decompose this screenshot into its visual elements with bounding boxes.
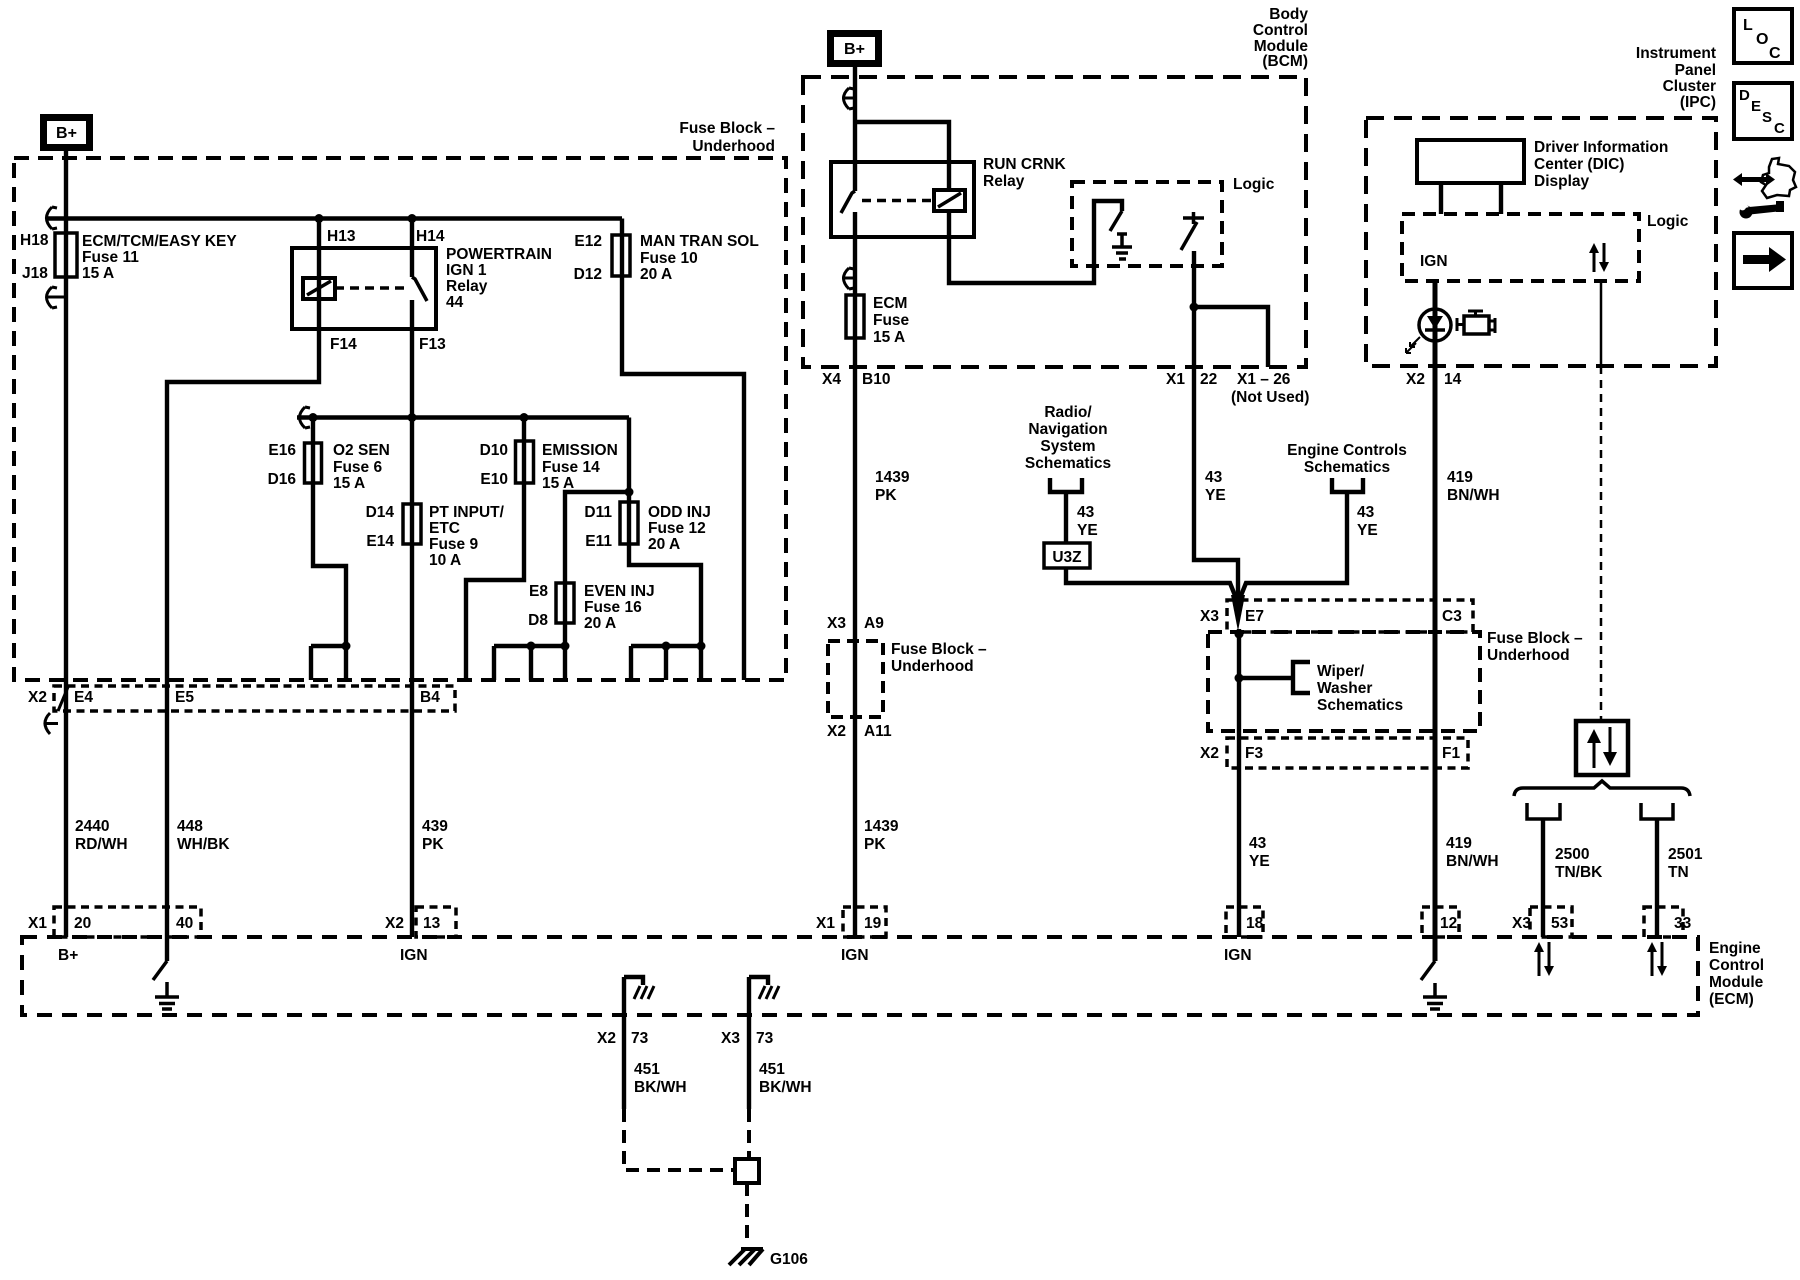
svg-text:BK/WH: BK/WH [634, 1079, 687, 1096]
svg-text:Engine: Engine [1709, 940, 1761, 957]
svg-text:E5: E5 [175, 689, 194, 706]
svg-text:MAN TRAN SOL: MAN TRAN SOL [640, 233, 759, 250]
svg-text:20 A: 20 A [640, 266, 672, 283]
svg-text:419: 419 [1447, 469, 1473, 486]
svg-text:YE: YE [1077, 522, 1098, 539]
svg-text:ETC: ETC [429, 520, 460, 537]
svg-text:448: 448 [177, 818, 203, 835]
svg-text:E8: E8 [529, 583, 548, 600]
svg-text:Body: Body [1269, 6, 1308, 23]
svg-text:20 A: 20 A [584, 615, 616, 632]
svg-text:Fuse 14: Fuse 14 [542, 459, 600, 476]
svg-text:43: 43 [1249, 835, 1267, 852]
svg-text:Fuse 9: Fuse 9 [429, 536, 478, 553]
svg-text:YE: YE [1249, 853, 1270, 870]
svg-text:J18: J18 [22, 265, 48, 282]
svg-text:X3: X3 [721, 1030, 740, 1047]
svg-text:12: 12 [1440, 915, 1457, 932]
svg-text:EMISSION: EMISSION [542, 442, 618, 459]
svg-text:C: C [1774, 120, 1785, 137]
svg-text:D10: D10 [480, 442, 508, 459]
svg-text:19: 19 [864, 915, 882, 932]
svg-text:X2: X2 [1406, 371, 1425, 388]
svg-text:PT INPUT/: PT INPUT/ [429, 504, 505, 521]
svg-text:451: 451 [634, 1061, 660, 1078]
svg-text:EVEN INJ: EVEN INJ [584, 583, 655, 600]
svg-text:15 A: 15 A [542, 475, 574, 492]
svg-text:X3: X3 [827, 615, 846, 632]
svg-text:X4: X4 [822, 371, 841, 388]
svg-text:ODD INJ: ODD INJ [648, 504, 711, 521]
svg-text:F14: F14 [330, 336, 357, 353]
svg-text:40: 40 [176, 915, 193, 932]
svg-text:C3: C3 [1442, 608, 1462, 625]
svg-text:C: C [1769, 45, 1781, 62]
svg-text:43: 43 [1205, 469, 1223, 486]
svg-text:B4: B4 [420, 689, 440, 706]
svg-text:E12: E12 [574, 233, 602, 250]
svg-text:Logic: Logic [1233, 176, 1275, 193]
svg-text:PK: PK [864, 836, 886, 853]
svg-text:L: L [1743, 17, 1753, 34]
svg-text:Fuse: Fuse [873, 312, 910, 329]
svg-text:E16: E16 [268, 442, 296, 459]
svg-text:43: 43 [1077, 504, 1095, 521]
svg-text:Fuse 16: Fuse 16 [584, 599, 642, 616]
svg-text:1439: 1439 [864, 818, 899, 835]
svg-text:22: 22 [1200, 371, 1217, 388]
svg-text:BN/WH: BN/WH [1447, 487, 1500, 504]
svg-text:POWERTRAIN: POWERTRAIN [446, 246, 552, 263]
svg-text:B+: B+ [56, 125, 77, 142]
svg-text:33: 33 [1674, 915, 1692, 932]
svg-text:(ECM): (ECM) [1709, 991, 1754, 1008]
svg-text:O: O [1756, 31, 1768, 48]
svg-text:18: 18 [1246, 915, 1264, 932]
svg-text:2501: 2501 [1668, 846, 1703, 863]
svg-text:X1 – 26: X1 – 26 [1237, 371, 1291, 388]
svg-text:A11: A11 [864, 723, 892, 740]
svg-text:E: E [1751, 98, 1761, 115]
svg-text:X2: X2 [1200, 745, 1219, 762]
svg-text:F1: F1 [1442, 745, 1460, 762]
svg-text:X1: X1 [816, 915, 835, 932]
svg-text:IGN: IGN [400, 947, 428, 964]
svg-text:15 A: 15 A [873, 329, 905, 346]
svg-text:Underhood: Underhood [891, 658, 974, 675]
svg-text:U3Z: U3Z [1052, 549, 1082, 566]
svg-text:Navigation: Navigation [1028, 421, 1107, 438]
svg-text:(BCM): (BCM) [1262, 53, 1308, 70]
svg-text:2440: 2440 [75, 818, 109, 835]
svg-text:Driver Information: Driver Information [1534, 139, 1668, 156]
svg-text:14: 14 [1444, 371, 1462, 388]
svg-text:YE: YE [1357, 522, 1378, 539]
svg-text:S: S [1762, 109, 1772, 126]
svg-text:Relay: Relay [446, 278, 488, 295]
svg-text:419: 419 [1446, 835, 1472, 852]
svg-text:H13: H13 [327, 228, 356, 245]
svg-text:IGN: IGN [1224, 947, 1252, 964]
svg-text:D12: D12 [574, 266, 602, 283]
svg-text:13: 13 [423, 915, 441, 932]
svg-text:RUN CRNK: RUN CRNK [983, 156, 1066, 173]
svg-text:Control: Control [1253, 22, 1308, 39]
svg-text:Fuse 10: Fuse 10 [640, 250, 698, 267]
svg-text:Fuse Block –: Fuse Block – [891, 641, 987, 658]
svg-text:E7: E7 [1245, 608, 1264, 625]
svg-text:Display: Display [1534, 173, 1590, 190]
svg-text:ECM/TCM/EASY KEY: ECM/TCM/EASY KEY [82, 233, 237, 250]
svg-text:D16: D16 [268, 471, 297, 488]
svg-text:B10: B10 [862, 371, 890, 388]
svg-text:Underhood: Underhood [1487, 647, 1570, 664]
svg-text:BK/WH: BK/WH [759, 1079, 812, 1096]
svg-text:43: 43 [1357, 504, 1375, 521]
svg-text:TN/BK: TN/BK [1555, 864, 1603, 881]
svg-text:73: 73 [756, 1030, 774, 1047]
svg-text:Wiper/: Wiper/ [1317, 663, 1365, 680]
svg-text:Relay: Relay [983, 173, 1025, 190]
svg-text:10 A: 10 A [429, 552, 461, 569]
svg-text:A9: A9 [864, 615, 884, 632]
svg-text:15 A: 15 A [82, 265, 114, 282]
svg-text:(IPC): (IPC) [1680, 94, 1716, 111]
svg-text:439: 439 [422, 818, 448, 835]
svg-text:E10: E10 [480, 471, 508, 488]
svg-text:Fuse 12: Fuse 12 [648, 520, 706, 537]
svg-text:Center (DIC): Center (DIC) [1534, 156, 1624, 173]
svg-text:IGN: IGN [841, 947, 869, 964]
svg-text:X2: X2 [28, 689, 47, 706]
svg-text:1439: 1439 [875, 469, 910, 486]
svg-text:F13: F13 [419, 336, 446, 353]
svg-text:X3: X3 [1512, 915, 1531, 932]
svg-text:Fuse Block –: Fuse Block – [1487, 630, 1583, 647]
svg-text:B+: B+ [58, 947, 78, 964]
svg-text:44: 44 [446, 294, 464, 311]
svg-text:D11: D11 [584, 504, 612, 521]
svg-text:TN: TN [1668, 864, 1689, 881]
svg-text:Logic: Logic [1647, 213, 1689, 230]
svg-text:Washer: Washer [1317, 680, 1372, 697]
svg-text:Fuse 6: Fuse 6 [333, 459, 382, 476]
svg-text:BN/WH: BN/WH [1446, 853, 1499, 870]
svg-text:20 A: 20 A [648, 536, 680, 553]
svg-text:2500: 2500 [1555, 846, 1589, 863]
svg-text:D8: D8 [528, 612, 548, 629]
svg-text:X3: X3 [1200, 608, 1219, 625]
svg-text:PK: PK [422, 836, 444, 853]
svg-text:73: 73 [631, 1030, 649, 1047]
svg-text:YE: YE [1205, 487, 1226, 504]
svg-text:X2: X2 [597, 1030, 616, 1047]
svg-text:Instrument: Instrument [1636, 45, 1716, 62]
svg-text:RD/WH: RD/WH [75, 836, 128, 853]
svg-text:20: 20 [74, 915, 91, 932]
svg-text:Panel: Panel [1675, 62, 1716, 79]
svg-text:Fuse Block –: Fuse Block – [679, 120, 775, 137]
svg-text:D14: D14 [366, 504, 395, 521]
svg-text:E14: E14 [366, 533, 394, 550]
svg-text:IGN 1: IGN 1 [446, 262, 487, 279]
svg-text:PK: PK [875, 487, 897, 504]
svg-text:D: D [1739, 87, 1750, 104]
svg-text:Schematics: Schematics [1317, 697, 1403, 714]
svg-text:X1: X1 [1166, 371, 1185, 388]
svg-text:Schematics: Schematics [1025, 455, 1111, 472]
svg-text:Cluster: Cluster [1663, 78, 1716, 95]
svg-text:O2 SEN: O2 SEN [333, 442, 390, 459]
svg-text:Underhood: Underhood [692, 138, 775, 155]
svg-text:X1: X1 [28, 915, 47, 932]
svg-text:System: System [1040, 438, 1095, 455]
svg-text:451: 451 [759, 1061, 785, 1078]
svg-text:H14: H14 [416, 228, 445, 245]
svg-text:IGN: IGN [1420, 253, 1448, 270]
svg-text:ECM: ECM [873, 295, 907, 312]
svg-text:X2: X2 [385, 915, 404, 932]
svg-text:Schematics: Schematics [1304, 459, 1390, 476]
svg-text:Fuse 11: Fuse 11 [82, 249, 139, 266]
svg-text:15 A: 15 A [333, 475, 365, 492]
svg-text:E11: E11 [585, 533, 612, 550]
svg-text:B+: B+ [844, 41, 865, 58]
svg-text:Radio/: Radio/ [1044, 404, 1092, 421]
svg-text:F3: F3 [1245, 745, 1263, 762]
svg-text:Module: Module [1709, 974, 1764, 991]
svg-text:(Not Used): (Not Used) [1231, 389, 1309, 406]
svg-text:E4: E4 [74, 689, 93, 706]
svg-text:Control: Control [1709, 957, 1764, 974]
svg-text:X2: X2 [827, 723, 846, 740]
svg-text:H18: H18 [20, 232, 49, 249]
svg-text:Engine Controls: Engine Controls [1287, 442, 1407, 459]
svg-text:53: 53 [1551, 915, 1569, 932]
svg-text:WH/BK: WH/BK [177, 836, 230, 853]
svg-text:G106: G106 [770, 1251, 808, 1268]
